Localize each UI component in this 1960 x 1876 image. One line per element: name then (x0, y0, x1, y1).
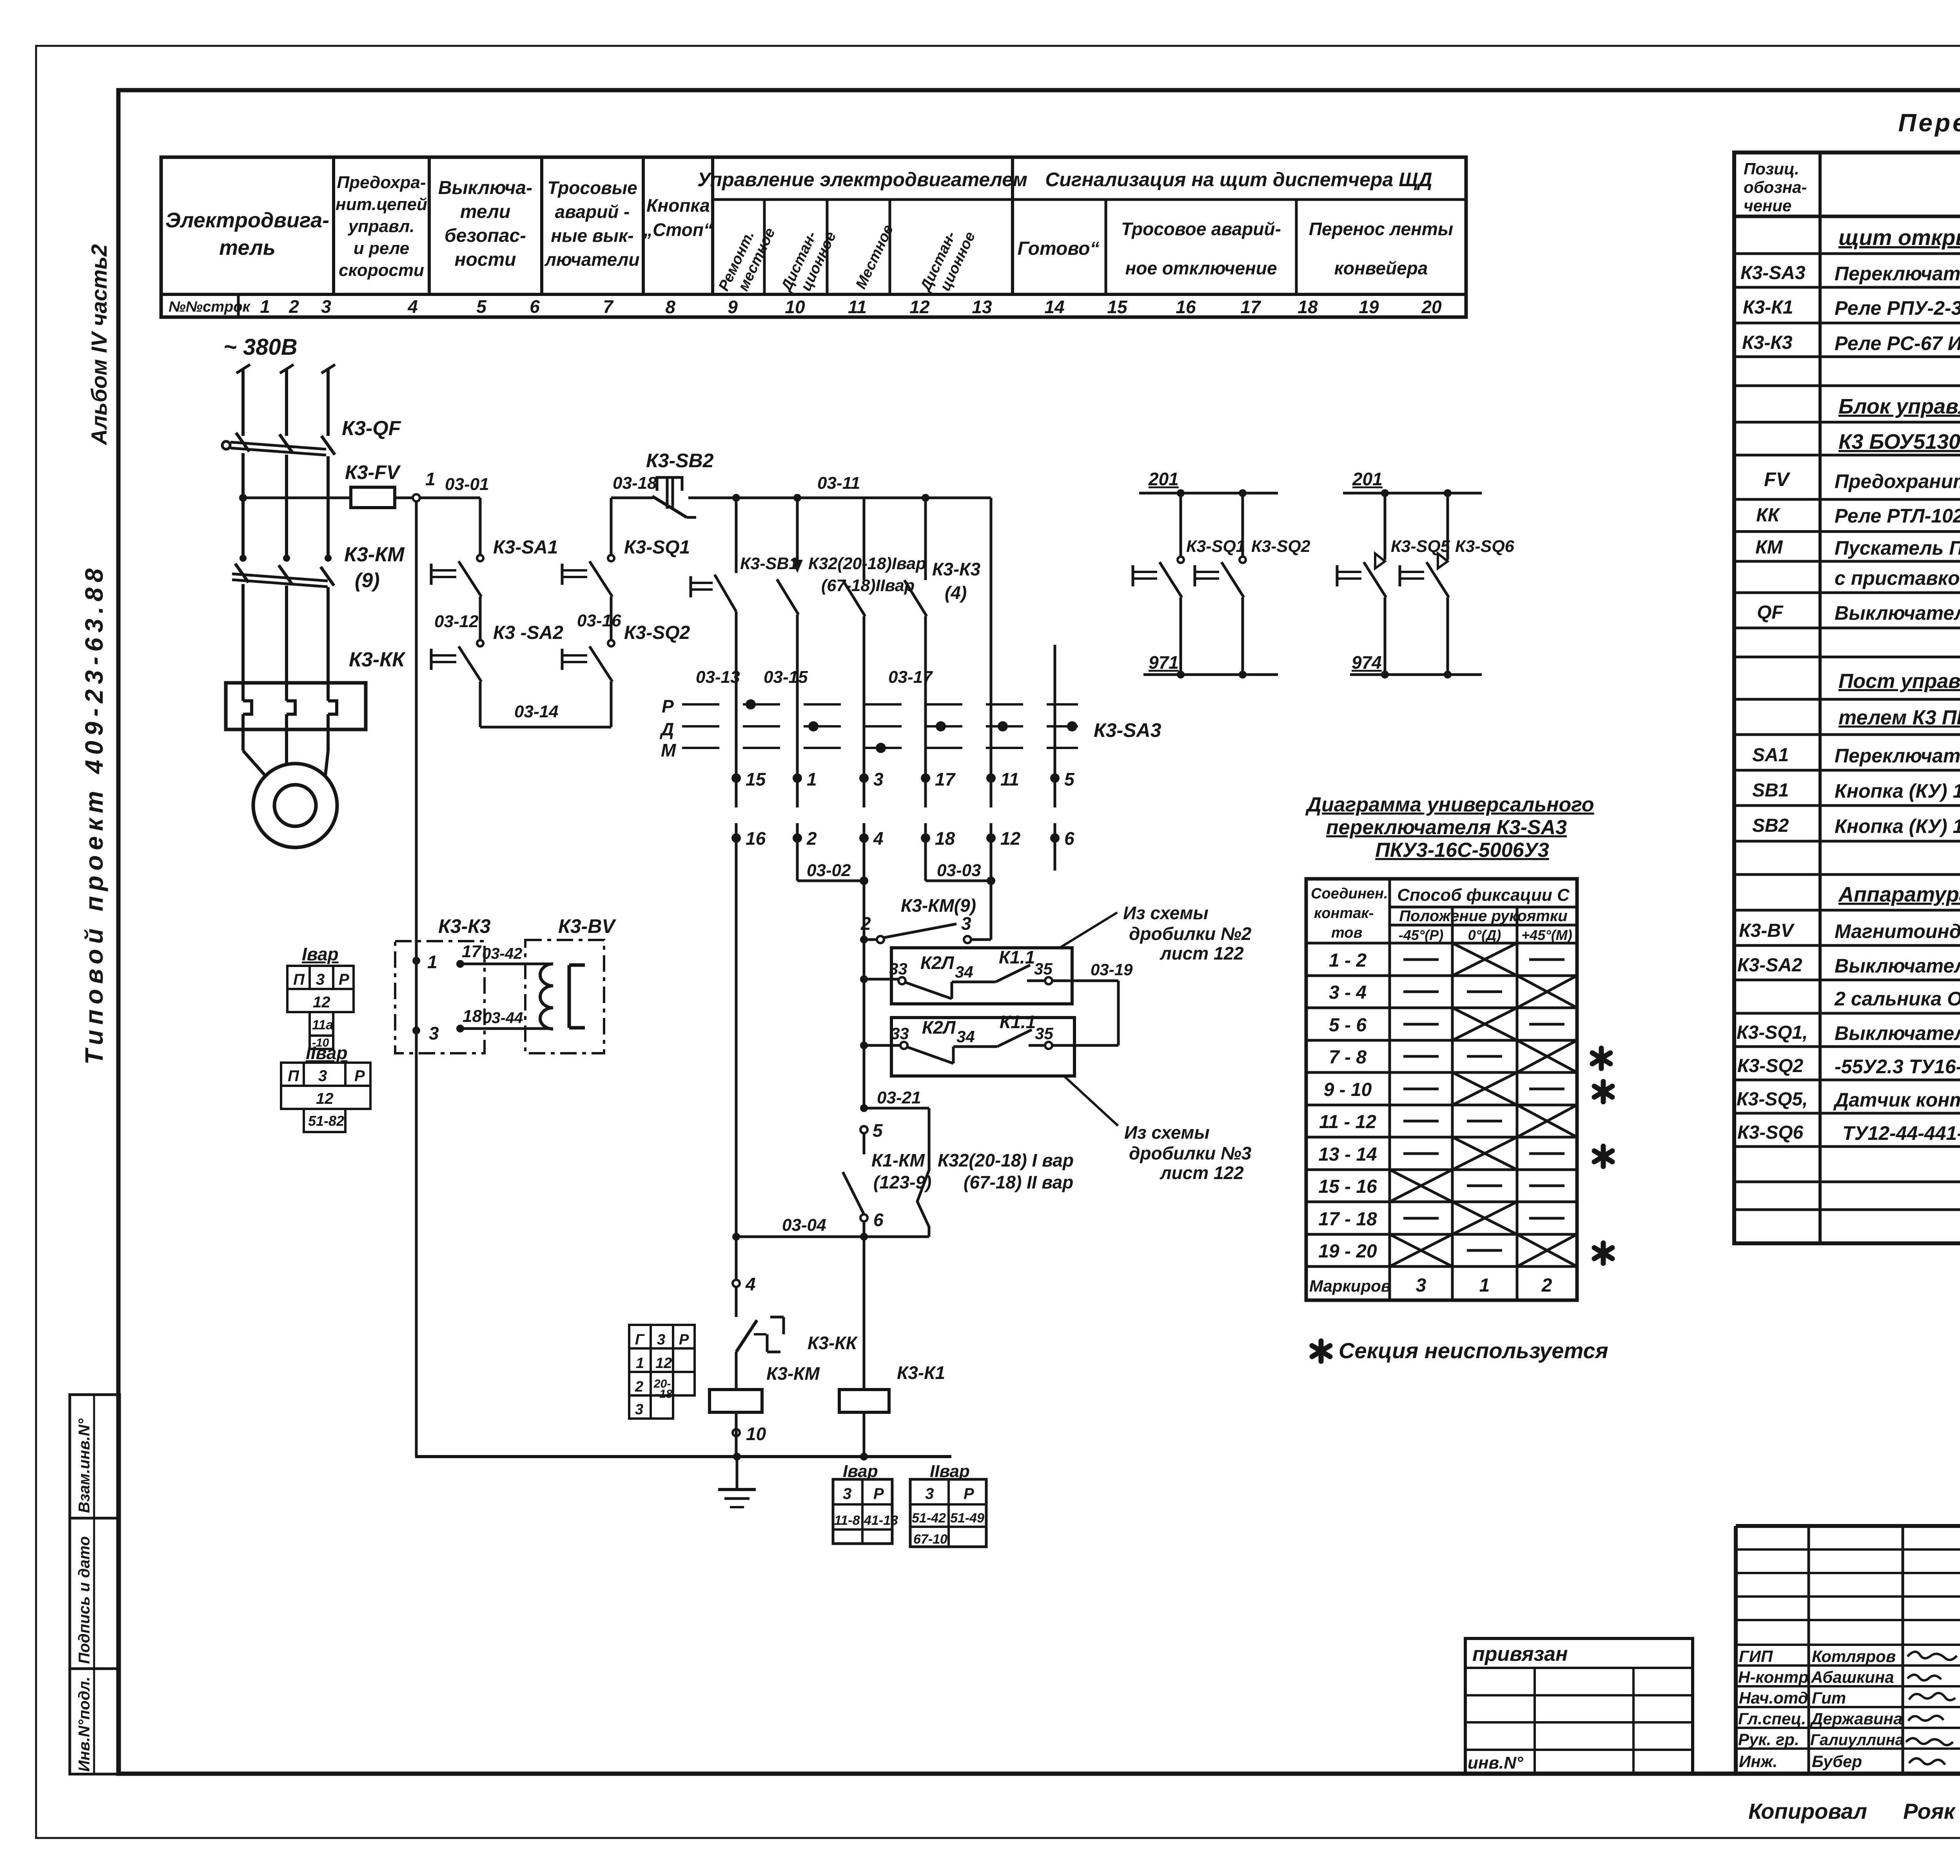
svg-text:2: 2 (806, 828, 817, 849)
svg-text:и реле: и реле (354, 239, 409, 258)
legend subheader: Тросовое аварийное отключение (1121, 219, 1281, 278)
svg-text:Переключатель ПКУ3-16СУ3 схема: Переключатель ПКУ3-16СУ3 схема 5006 (1835, 263, 1960, 285)
svg-text:Выключатель пакетный ПВ3-10У25: Выключатель пакетный ПВ3-10У256Б (1835, 955, 1960, 977)
svg-text:Датчик контроля схода ленты КС: Датчик контроля схода ленты КСЛ-2 (1833, 1089, 1960, 1111)
svg-text:К3-SA3: К3-SA3 (1740, 263, 1806, 283)
svg-text:Диаграмма универсального: Диаграмма универсального (1305, 793, 1594, 816)
svg-text:аварий -: аварий - (555, 201, 630, 222)
svg-text:3: 3 (657, 1332, 665, 1348)
svg-text:1: 1 (1479, 1275, 1490, 1296)
door switch group 201-971 (1139, 469, 1278, 497)
svg-text:2 сальника ОСТ16.0526.001-77: 2 сальника ОСТ16.0526.001-77 (1834, 988, 1960, 1010)
svg-text:К3-К1: К3-К1 (1743, 297, 1793, 318)
thermal contact K3-KK (736, 1287, 858, 1390)
svg-text:2: 2 (635, 1379, 643, 1395)
svg-text:34: 34 (956, 1027, 975, 1046)
svg-text:с приставкой ПКЛ2004: с приставкой ПКЛ2004 (1835, 567, 1960, 589)
terminal row 16 2 4 18 12 6 (731, 823, 1074, 849)
svg-text:К3-КМ: К3-КМ (766, 1363, 820, 1384)
svg-text:Кнопка (КУ) 1з+1р, красн.„стоп: Кнопка (КУ) 1з+1р, красн.„стоп“ (1835, 815, 1960, 837)
svg-text:Из схемы: Из схемы (1123, 903, 1209, 923)
svg-text:К3-К3: К3-К3 (438, 915, 491, 937)
svg-text:4: 4 (407, 296, 418, 317)
svg-text:Управление электродвигателем: Управление электродвигателем (697, 169, 1027, 191)
svg-text:1: 1 (260, 296, 270, 317)
svg-text:0°(Д): 0°(Д) (1468, 927, 1501, 943)
svg-text:Р: Р (679, 1332, 689, 1348)
svg-text:03-44: 03-44 (483, 1009, 523, 1027)
svg-text:5: 5 (1064, 769, 1075, 789)
svg-text:15: 15 (1107, 297, 1128, 317)
element list rows (1838, 225, 1960, 250)
svg-text:Взам.инв.N°: Взам.инв.N° (76, 1418, 93, 1513)
svg-text:IIвар: IIвар (306, 1043, 347, 1063)
limit switch K3-SQ2 lower (1195, 493, 1310, 675)
svg-text:2: 2 (1541, 1275, 1552, 1296)
svg-text:К3-КМ: К3-КМ (344, 543, 405, 566)
svg-text:М: М (661, 740, 677, 760)
svg-text:18: 18 (1298, 297, 1318, 317)
switch diagram cells row 3-4 (1403, 976, 1577, 1008)
contact branch col 15 (691, 498, 740, 778)
wire 03-03 join (926, 838, 995, 885)
svg-text:3: 3 (873, 769, 884, 789)
svg-text:974: 974 (1352, 652, 1382, 673)
K3-K3 output terminals 17 18 (456, 942, 552, 1032)
svg-text:Котляров: Котляров (1812, 1647, 1896, 1666)
svg-text:Магнитоиндуктивный датчик ДМ-2: Магнитоиндуктивный датчик ДМ-2 (1835, 920, 1960, 942)
svg-text:SA1: SA1 (1752, 745, 1789, 766)
svg-text:03-13: 03-13 (696, 668, 740, 687)
svg-text:Галиуллина: Галиуллина (1810, 1731, 1904, 1749)
margin stamp text Взам.инв.№ (76, 1418, 93, 1513)
svg-text:К3-КК: К3-КК (808, 1333, 858, 1353)
svg-text:15 - 16: 15 - 16 (1318, 1176, 1377, 1197)
svg-text:ности: ности (454, 249, 516, 270)
svg-text:34: 34 (955, 963, 973, 981)
svg-text:(67-18) II вар: (67-18) II вар (964, 1172, 1073, 1192)
legend col3 header (438, 178, 532, 270)
svg-text:201: 201 (1352, 469, 1383, 489)
svg-text:33: 33 (891, 1024, 909, 1043)
svg-text:Выключатель путевой ВП16Г23Б25: Выключатель путевой ВП16Г23Б251- (1835, 1022, 1960, 1044)
svg-text:18: 18 (463, 1007, 482, 1026)
svg-text:~ 380В: ~ 380В (223, 334, 298, 360)
svg-text:Способ фиксации С: Способ фиксации С (1397, 885, 1570, 905)
svg-text:Iвар: Iвар (302, 944, 339, 964)
margin stamp text Подпись и дата (76, 1536, 93, 1664)
bottom annotations (1748, 1799, 1960, 1845)
svg-text:Реле РПУ-2-36220У3Б И~220В: Реле РПУ-2-36220У3Б И~220В (1835, 297, 1960, 319)
svg-text:дробилки №3: дробилки №3 (1129, 1143, 1252, 1163)
svg-text:Р: Р (662, 696, 674, 717)
svg-text:Предохра-: Предохра- (337, 173, 426, 192)
svg-text:3 - 4: 3 - 4 (1329, 982, 1367, 1003)
svg-text:3: 3 (925, 1485, 934, 1502)
svg-text:03-03: 03-03 (937, 861, 981, 880)
svg-text:К3-QF: К3-QF (342, 417, 401, 440)
svg-text:К3-SQ2: К3-SQ2 (1251, 537, 1310, 556)
connector table II var lower (281, 1043, 370, 1132)
wire 971 (1143, 652, 1278, 679)
svg-text:03-17: 03-17 (888, 668, 933, 687)
svg-text:03-19: 03-19 (1091, 960, 1133, 979)
svg-text:11: 11 (848, 297, 867, 317)
element list grid (1734, 152, 1960, 1243)
svg-text:4: 4 (745, 1274, 756, 1294)
start button K3-SB1 col 1 (740, 498, 808, 778)
svg-text:201: 201 (1148, 469, 1179, 489)
svg-text:Инж.: Инж. (1739, 1752, 1777, 1771)
svg-text:тели: тели (460, 201, 511, 222)
switch diagram cells row 1-2 (1403, 943, 1564, 976)
svg-text:конвейера: конвейера (1334, 258, 1428, 278)
legend numbers row (169, 296, 1442, 317)
callout drobilka 3 (1063, 1075, 1252, 1183)
bypass contact K32 branch (917, 1108, 929, 1237)
wire 974 (1350, 652, 1482, 679)
svg-text:тель: тель (219, 236, 276, 259)
svg-text:переключателя К3-SA3: переключателя К3-SA3 (1326, 816, 1567, 839)
svg-text:03-12: 03-12 (434, 612, 479, 631)
svg-text:5 - 6: 5 - 6 (1329, 1015, 1367, 1036)
svg-text:К3-SQ6: К3-SQ6 (1455, 537, 1515, 556)
svg-text:Предохранитель ППТ-10У3,6А: Предохранитель ППТ-10У3,6А (1835, 470, 1960, 492)
svg-text:Копировал: Копировал (1748, 1799, 1867, 1823)
switch diagram cells row 5-6 (1403, 1008, 1564, 1040)
svg-text:2: 2 (860, 913, 871, 934)
legend col1 header (165, 209, 329, 259)
svg-text:19: 19 (1359, 297, 1379, 317)
svg-text:3: 3 (318, 1067, 327, 1085)
svg-text:Из схемы: Из схемы (1124, 1122, 1210, 1143)
svg-text:Реле РС-67 И~220В комплект дат: Реле РС-67 И~220В комплект датчик ДМ-2 (1835, 332, 1960, 354)
svg-text:1: 1 (427, 952, 437, 972)
interlock box drobilka 2 (889, 947, 1072, 1004)
connector table I var bottom (833, 1462, 898, 1544)
svg-text:Р: Р (873, 1485, 884, 1502)
svg-text:Положение рукоятки: Положение рукоятки (1399, 907, 1567, 925)
svg-text:Кнопка: Кнопка (646, 195, 710, 216)
svg-text:К3-FV: К3-FV (345, 461, 401, 483)
coil K3-KM (710, 1363, 820, 1457)
svg-text:8: 8 (665, 297, 675, 317)
legend subheader: Перенос ленты конвейера (1309, 219, 1453, 278)
asterisks (1592, 1048, 1612, 1263)
svg-text:привязан: привязан (1472, 1643, 1568, 1666)
limit switch K3-SQ1 lower (1133, 493, 1245, 675)
motor M (253, 764, 337, 847)
svg-text:Рояк: Рояк (1903, 1799, 1956, 1823)
svg-text:Позиц.: Позиц. (1744, 160, 1799, 178)
svg-text:11: 11 (1000, 769, 1019, 789)
svg-text:03-18: 03-18 (613, 474, 657, 493)
legend section header: Управление электродвигателем (697, 169, 1027, 191)
svg-text:Реле РТЛ-102204 Iн.э.22А: Реле РТЛ-102204 Iн.э.22А (1835, 505, 1960, 527)
svg-text:Сигнализация на щит диспетчера: Сигнализация на щит диспетчера ЩД (1045, 169, 1432, 191)
svg-text:К3 БОУ5130-3А74ГУХЛ4Б: К3 БОУ5130-3А74ГУХЛ4Б (1838, 430, 1960, 454)
svg-text:лючатели: лючатели (544, 249, 639, 270)
svg-text:К3-SQ5,: К3-SQ5, (1737, 1089, 1808, 1110)
svg-text:9 - 10: 9 - 10 (1324, 1080, 1372, 1100)
svg-text:К3-SA2: К3-SA2 (1737, 955, 1802, 976)
callout drobilka 2 (1058, 903, 1252, 963)
svg-text:03-02: 03-02 (807, 861, 851, 880)
svg-text:6: 6 (1064, 828, 1074, 849)
svg-text:Соединен.: Соединен. (1311, 885, 1388, 902)
svg-text:Перечень элементов: Перечень элементов (1898, 109, 1960, 137)
svg-text:1 - 2: 1 - 2 (1329, 950, 1367, 971)
switch diagram cells row 13-14 (1403, 1137, 1564, 1170)
svg-text:11а: 11а (312, 1018, 333, 1032)
svg-text:скорости: скорости (339, 261, 424, 280)
element list header texts (1744, 160, 1960, 215)
svg-text:1: 1 (807, 769, 817, 789)
svg-text:К1-КМ: К1-КМ (871, 1150, 925, 1170)
svg-text:Кнопка (КУ) 1з+1р, черн.„пуск“: Кнопка (КУ) 1з+1р, черн.„пуск“ (1835, 780, 1960, 802)
svg-text:К3-К3: К3-К3 (1742, 332, 1793, 353)
svg-text:Г: Г (635, 1332, 645, 1348)
thermal relay K3-KK heaters (226, 648, 406, 729)
wire 03-18 (611, 474, 657, 555)
svg-text:Типовой проект 409-23-63.88: Типовой проект 409-23-63.88 (80, 563, 108, 1065)
svg-text:03-16: 03-16 (577, 611, 621, 630)
svg-text:5: 5 (476, 296, 487, 317)
svg-text:03-21: 03-21 (877, 1088, 921, 1107)
svg-text:17 - 18: 17 - 18 (1318, 1209, 1377, 1230)
circuit breaker K3-QF (222, 417, 401, 455)
svg-text:К3-КМ(9): К3-КМ(9) (901, 895, 976, 916)
svg-text:К3-КК: К3-КК (349, 648, 406, 671)
belt sensor K3-SQ6 (1400, 493, 1515, 675)
svg-text:К2Л: К2Л (922, 1017, 956, 1038)
switch diagram row labels (1309, 950, 1552, 1296)
svg-text:(67-18)IIвар: (67-18)IIвар (821, 576, 915, 595)
svg-text:К3-SQ6: К3-SQ6 (1737, 1122, 1804, 1143)
svg-text:ТУ12-44-441-75: ТУ12-44-441-75 (1842, 1122, 1960, 1144)
svg-text:03-11: 03-11 (817, 474, 860, 493)
contactor K3-KM main contacts (232, 543, 405, 592)
phase segments KK to motor (243, 714, 328, 775)
svg-text:SB1: SB1 (1752, 780, 1789, 801)
wire 03-11 (732, 474, 991, 502)
svg-text:К3-SА1: К3-SА1 (493, 537, 558, 558)
svg-text:чение: чение (1744, 196, 1791, 215)
phase segments QF to KM (243, 453, 328, 558)
legend rotated subheader: Дистанционное 2 (917, 229, 978, 295)
svg-text:03-04: 03-04 (782, 1216, 826, 1235)
legend col4 header (544, 178, 639, 270)
ground (718, 1457, 756, 1507)
svg-text:Выключа-: Выключа- (438, 178, 532, 198)
wire 03-14 (480, 682, 611, 727)
svg-text:41-13: 41-13 (864, 1513, 898, 1528)
left control rail (415, 501, 418, 1457)
svg-text:18: 18 (935, 828, 955, 849)
svg-text:дробилки №2: дробилки №2 (1129, 923, 1252, 944)
legend rotated subheader: Дистанционное (778, 229, 839, 295)
svg-text:Альбом IV часть2: Альбом IV часть2 (87, 244, 111, 446)
svg-text:17: 17 (462, 942, 482, 961)
svg-text:Электродвига-: Электродвига- (165, 209, 329, 232)
svg-text:5: 5 (873, 1120, 883, 1141)
svg-text:15: 15 (746, 769, 766, 789)
svg-text:Нач.отд: Нач.отд (1739, 1689, 1808, 1707)
node 1 (413, 469, 436, 501)
svg-text:03-42: 03-42 (482, 945, 522, 962)
phase segments KM to KK (243, 584, 328, 701)
signature squiggles (1906, 1652, 1960, 1765)
svg-text:SB2: SB2 (1752, 815, 1789, 836)
svg-text:6: 6 (530, 296, 540, 317)
signature labels (1738, 1647, 1904, 1771)
svg-text:ПКУ3-16С-5006У3: ПКУ3-16С-5006У3 (1375, 839, 1549, 862)
svg-text:К3-SQ2: К3-SQ2 (624, 622, 690, 643)
svg-text:03-01: 03-01 (445, 475, 489, 494)
svg-text:Р: Р (354, 1067, 365, 1085)
svg-text:Р: Р (964, 1485, 974, 1502)
svg-text:Пост управления К3-ПУ электро: Пост управления К3-ПУ электродвига- (1838, 670, 1960, 693)
switch K3-SA2 (431, 622, 563, 682)
svg-text:Готово“: Готово“ (1018, 238, 1100, 259)
switch K3-SA1 (431, 498, 558, 597)
svg-text:Тросовые: Тросовые (547, 178, 637, 198)
svg-text:1: 1 (636, 1355, 644, 1372)
svg-text:Пускатель ПМЛ210004Б И~220В: Пускатель ПМЛ210004Б И~220В (1835, 537, 1960, 559)
wire 03-04 (732, 1216, 929, 1241)
svg-text:телем К3 ПКУ15-19.141-54У2: телем К3 ПКУ15-19.141-54У2 (1838, 706, 1960, 729)
svg-text:3: 3 (843, 1485, 851, 1502)
main drop x2204 (860, 940, 901, 1108)
svg-text:51-42: 51-42 (912, 1511, 946, 1526)
svg-text:Блок управления электродвигат: Блок управления электродвигателем (1838, 395, 1960, 418)
svg-text:3: 3 (635, 1401, 643, 1418)
svg-text:6: 6 (873, 1210, 884, 1230)
svg-text:инв.N°: инв.N° (1468, 1753, 1523, 1773)
svg-text:Инв.N°подл.: Инв.N°подл. (76, 1676, 93, 1772)
legend subheader: Готово (1018, 238, 1100, 259)
svg-text:11 - 12: 11 - 12 (1319, 1112, 1376, 1132)
selector row D dashed (659, 719, 1078, 739)
svg-text:Абашкина: Абашкина (1811, 1668, 1894, 1686)
svg-text:управл.: управл. (348, 217, 415, 236)
svg-text:К3-SQ1: К3-SQ1 (624, 537, 690, 558)
switch diagram header texts (1311, 885, 1572, 943)
belt sensor K3-SQ5 (1337, 493, 1450, 675)
legend rotated subheader: Ремонт. местное (715, 225, 779, 294)
svg-text:3: 3 (1416, 1275, 1426, 1296)
svg-text:ные вык-: ные вык- (551, 225, 633, 246)
svg-text:-55У2.3 ТУ16-526.486-81: -55У2.3 ТУ16-526.486-81 (1835, 1056, 1960, 1078)
svg-text:П: П (293, 971, 305, 988)
svg-text:контак-: контак- (1314, 905, 1374, 922)
supply label ~380V (223, 334, 298, 360)
svg-text:КМ: КМ (1755, 537, 1783, 558)
svg-text:4: 4 (873, 828, 884, 849)
svg-text:Р: Р (339, 971, 349, 988)
svg-text:67-10: 67-10 (913, 1532, 947, 1547)
selector K3-SA3 label (1094, 719, 1161, 741)
svg-text:12: 12 (313, 994, 330, 1011)
svg-text:12: 12 (1000, 828, 1021, 849)
svg-text:1: 1 (425, 469, 436, 489)
svg-text:К3-SQ5: К3-SQ5 (1391, 537, 1450, 556)
fuse K3-FV tap junction (239, 494, 351, 502)
sensor K3-BV winding (540, 964, 585, 1029)
legend col5 header (643, 195, 713, 240)
coil K3-K1 (839, 1237, 945, 1457)
svg-text:„Стоп“: „Стоп“ (643, 220, 713, 240)
svg-text:№№строк: №№строк (169, 299, 250, 315)
svg-text:Державина: Державина (1810, 1709, 1902, 1728)
svg-text:3: 3 (429, 1023, 439, 1043)
svg-text:Н-контр: Н-контр (1738, 1668, 1809, 1686)
svg-text:К3 -SА2: К3 -SА2 (493, 622, 563, 643)
element list title (1898, 109, 1960, 137)
svg-text:-18: -18 (655, 1388, 673, 1401)
svg-text:К3-SQ1: К3-SQ1 (1186, 537, 1245, 556)
margin stamp text Инв.№подл. (76, 1676, 93, 1772)
belt switch group 201-974 (1343, 469, 1482, 497)
svg-text:16: 16 (746, 828, 766, 849)
svg-text:+45°(М): +45°(М) (1521, 927, 1572, 943)
svg-text:КК: КК (1756, 505, 1781, 526)
svg-text:(123-9): (123-9) (873, 1172, 931, 1192)
svg-text:Бубер: Бубер (1812, 1752, 1862, 1771)
svg-text:13 - 14: 13 - 14 (1318, 1144, 1377, 1165)
svg-text:10: 10 (746, 1424, 766, 1444)
svg-text:лист 122: лист 122 (1160, 1163, 1244, 1183)
bottom return bus (415, 1453, 951, 1461)
svg-text:ное отключение: ное отключение (1125, 258, 1277, 278)
svg-text:12: 12 (909, 297, 930, 317)
svg-text:14: 14 (1044, 297, 1064, 317)
svg-text:нит.цепей: нит.цепей (336, 195, 427, 214)
col 16 drop to node 4 (733, 838, 756, 1294)
switch diagram grid (1306, 879, 1577, 1300)
svg-text:19 - 20: 19 - 20 (1318, 1241, 1377, 1262)
svg-text:(4): (4) (945, 582, 967, 603)
svg-text:17: 17 (935, 769, 956, 789)
stub col 6 (1054, 838, 1056, 871)
svg-text:Гит: Гит (1812, 1689, 1846, 1707)
svg-text:20: 20 (1421, 297, 1442, 317)
svg-text:К3-BV: К3-BV (1739, 920, 1795, 941)
interlock box drobilka 3 (891, 1012, 1118, 1076)
svg-text:16: 16 (1176, 297, 1196, 317)
wire 03-01 (420, 475, 489, 498)
svg-text:П: П (288, 1067, 299, 1085)
svg-text:обозна-: обозна- (1744, 178, 1807, 196)
legend section header: Сигнализация (1045, 169, 1432, 191)
svg-text:Тросовое аварий-: Тросовое аварий- (1121, 219, 1281, 239)
svg-text:QF: QF (1757, 602, 1784, 623)
svg-text:03-15: 03-15 (764, 668, 808, 687)
svg-text:-45°(Р): -45°(Р) (1399, 927, 1443, 943)
svg-text:К3-SB1: К3-SB1 (740, 554, 798, 573)
three phase feeders (236, 365, 335, 436)
svg-text:7 - 8: 7 - 8 (1329, 1047, 1367, 1068)
svg-text:щит открытый 1Щ: щит открытый 1Щ (1838, 225, 1960, 250)
legend rotated subheader: Местное (853, 222, 897, 292)
svg-text:11-8: 11-8 (834, 1513, 860, 1528)
selector row M dashed (661, 740, 1078, 760)
svg-text:ГИП: ГИП (1739, 1647, 1773, 1666)
switch diagram cells row 11-12 (1403, 1105, 1577, 1137)
svg-text:03-14: 03-14 (514, 702, 559, 721)
legend col2 header (336, 173, 427, 280)
svg-text:12: 12 (316, 1090, 334, 1107)
